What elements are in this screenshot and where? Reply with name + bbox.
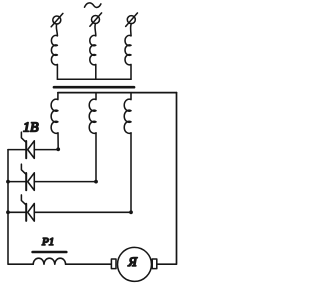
wire: terminal X2 to primary winding 2 xyxy=(94,24,97,36)
terminal X3 (circle with slash) xyxy=(126,13,138,26)
thyristor VS2 gate xyxy=(21,164,26,174)
wire: secondary 2 lead down to node B xyxy=(95,133,97,182)
junction dot on left bus at VS2 xyxy=(6,180,10,184)
thyristor VS1 triangle xyxy=(28,141,35,159)
wire: secondary 1 lead down to node A xyxy=(57,133,59,150)
AC source tilde symbol xyxy=(85,3,101,8)
motor M1 right brush xyxy=(152,259,157,269)
wire: secondary 3 lead down to node C xyxy=(130,133,132,212)
wire: reactor to motor left brush xyxy=(66,263,112,265)
thyristor VS2 cathode bar xyxy=(25,173,27,190)
thyristor VS3 triangle xyxy=(28,204,35,222)
wire: terminal X3 to primary winding 3 xyxy=(130,24,133,36)
terminal X1 (circle with slash) xyxy=(51,13,63,26)
transformer T1 primary winding 3 xyxy=(125,35,131,79)
thyristor VS3 cathode bar xyxy=(25,204,27,221)
transformer T1 secondary winding 2 xyxy=(89,93,96,134)
svg-text:1В: 1В xyxy=(23,121,39,136)
wire: VS1 anode to node A xyxy=(34,149,58,151)
wire: primary star bus xyxy=(57,78,131,80)
svg-text:Р1: Р1 xyxy=(41,236,54,248)
svg-text:Я: Я xyxy=(127,254,138,269)
transformer T1 primary winding 1 xyxy=(51,35,57,79)
transformer T1 primary winding 2 xyxy=(90,35,96,79)
wire: VS2 anode to node B xyxy=(34,181,96,183)
thyristor VS1 cathode bar xyxy=(25,141,27,158)
wire: left bus to VS3 cathode xyxy=(8,211,25,213)
thyristor VS3 gate xyxy=(21,195,26,205)
node C junction dot xyxy=(129,210,133,214)
thyristor VS1 gate xyxy=(21,132,26,142)
terminal X2 (circle with slash) xyxy=(90,13,102,26)
reactor Р1 winding arcs xyxy=(33,258,65,264)
wire: terminal X1 to primary winding 1 xyxy=(56,24,57,36)
transformer core xyxy=(54,86,134,89)
wire: VS3 anode to node C xyxy=(34,211,131,213)
thyristor VS2 triangle xyxy=(28,173,35,191)
wire: right side down to motor xyxy=(157,93,177,265)
wire: secondary bus to right corner xyxy=(58,92,177,94)
node A junction dot xyxy=(56,147,60,151)
reactor Р1 core bar xyxy=(33,251,67,254)
motor M1 armature circle xyxy=(118,247,152,281)
transformer T1 secondary winding 3 xyxy=(124,93,131,134)
wire: left cathode bus down to bottom xyxy=(8,150,33,265)
transformer T1 secondary winding 1 xyxy=(51,93,58,134)
junction dot on left bus at VS3 xyxy=(6,210,10,214)
motor M1 left brush xyxy=(111,259,116,269)
node B junction dot xyxy=(94,180,98,184)
wire: left bus to VS1 cathode xyxy=(8,149,25,151)
wire: left bus to VS2 cathode xyxy=(8,181,25,183)
